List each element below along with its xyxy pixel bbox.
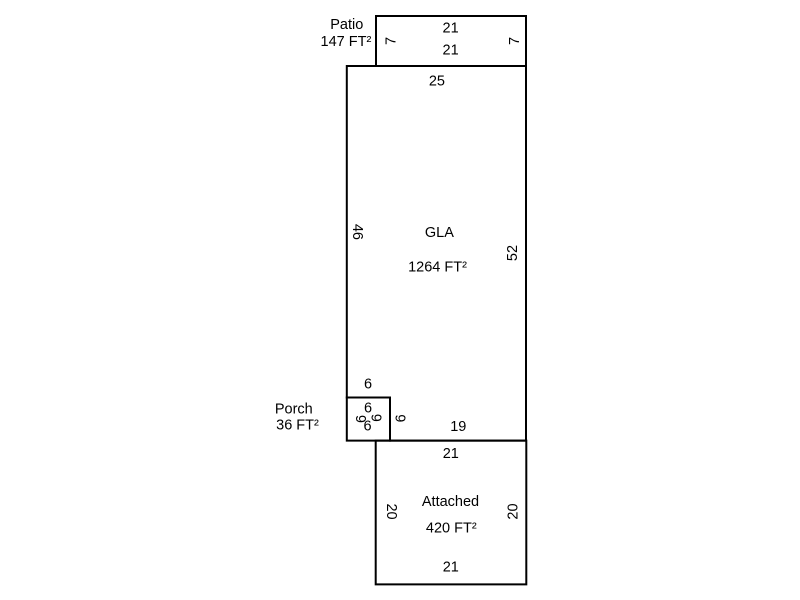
svg-text:36 FT²: 36 FT² — [276, 418, 319, 434]
svg-text:Patio: Patio — [330, 17, 363, 33]
svg-text:46: 46 — [349, 224, 365, 240]
svg-text:Attached: Attached — [422, 494, 479, 510]
svg-text:21: 21 — [443, 559, 459, 575]
svg-text:GLA: GLA — [425, 225, 454, 241]
svg-text:420 FT²: 420 FT² — [426, 521, 477, 537]
svg-text:21: 21 — [443, 43, 459, 59]
svg-text:25: 25 — [429, 73, 445, 89]
patio outline — [376, 16, 526, 66]
svg-text:1264 FT²: 1264 FT² — [408, 260, 467, 276]
svg-text:6: 6 — [394, 414, 410, 422]
svg-text:7: 7 — [507, 37, 523, 45]
svg-text:7: 7 — [383, 37, 399, 45]
svg-text:6: 6 — [363, 418, 371, 434]
GLA outline — [347, 66, 526, 441]
porch outline — [347, 398, 390, 441]
svg-text:Porch: Porch — [275, 401, 313, 417]
svg-text:6: 6 — [370, 414, 386, 422]
svg-text:21: 21 — [443, 20, 459, 36]
attached garage outline — [376, 441, 527, 585]
svg-text:19: 19 — [450, 419, 466, 435]
svg-text:21: 21 — [443, 446, 459, 462]
svg-text:20: 20 — [383, 503, 399, 519]
svg-text:6: 6 — [364, 376, 372, 392]
svg-text:147 FT²: 147 FT² — [321, 34, 372, 50]
svg-text:52: 52 — [505, 245, 521, 261]
svg-text:20: 20 — [505, 503, 521, 519]
